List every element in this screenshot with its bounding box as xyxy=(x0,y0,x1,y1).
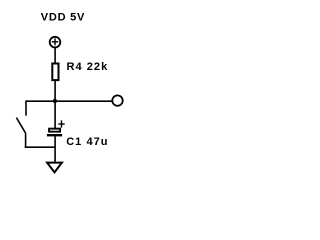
svg-text:R4 22k: R4 22k xyxy=(67,61,109,73)
svg-text:VDD 5V: VDD 5V xyxy=(41,12,85,24)
svg-text:C1 47u: C1 47u xyxy=(66,136,108,148)
